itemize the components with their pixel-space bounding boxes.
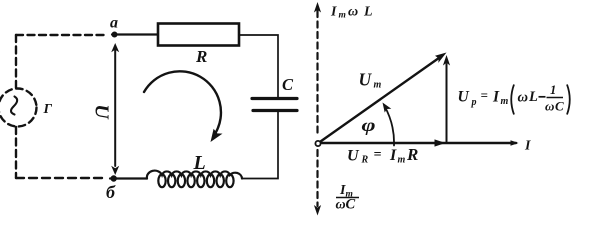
svg-text:I: I (492, 89, 500, 106)
svg-text:1: 1 (550, 83, 556, 97)
label UR = Im R (347, 145, 418, 166)
svg-text:R: R (361, 155, 369, 166)
svg-text:m: m (339, 11, 346, 21)
vector Um (321, 57, 442, 142)
svg-text:Г: Г (43, 102, 53, 117)
svg-text:а: а (110, 15, 118, 32)
svg-text:I: I (330, 5, 337, 20)
svg-text:I: I (524, 139, 531, 154)
wire dashed bottom-left from corner to node b (16, 177, 106, 179)
wire top from node a to resistor (112, 33, 158, 35)
label Im over omega C (bottom of phasor axis) (336, 183, 360, 213)
wire dashed left side upper (corner down to generator) (15, 35, 17, 88)
wire bottom from node b to inductor (110, 177, 147, 179)
generator G (dashed circle) (0, 89, 37, 127)
circular current direction arrow (144, 71, 221, 133)
node b junction dot (111, 175, 117, 181)
svg-text:φ: φ (362, 115, 376, 135)
vector Up vertical (446, 64, 448, 142)
svg-text:ω: ω (336, 198, 346, 213)
wire from resistor to top-right corner and down (239, 35, 278, 97)
inductor L coil loops (158, 174, 233, 187)
capacitor C (252, 99, 297, 111)
wire dashed left side lower (generator down to corner) (15, 127, 17, 178)
origin marker (315, 141, 320, 146)
phasor vertical dashed axis (316, 11, 318, 136)
svg-text:U: U (347, 148, 360, 165)
generator sine squiggle (11, 97, 17, 115)
node a junction dot (112, 32, 118, 38)
svg-text:m: m (374, 80, 382, 91)
svg-text:=: = (374, 148, 382, 163)
svg-text:U: U (359, 70, 373, 90)
svg-text:C: C (555, 99, 564, 114)
svg-text:m: m (398, 155, 406, 166)
inductor L coil humps (147, 171, 242, 179)
svg-text:р: р (471, 97, 477, 108)
svg-text:L: L (193, 152, 206, 174)
wire dashed top-left from corner to node a (16, 34, 108, 36)
svg-text:б: б (106, 182, 116, 202)
axis arrow up (314, 2, 321, 13)
svg-text:R: R (406, 145, 418, 164)
svg-text:L: L (363, 5, 373, 20)
label Um vector (359, 70, 382, 91)
svg-text:ω: ω (348, 5, 358, 20)
svg-text:m: m (501, 96, 509, 107)
svg-text:C: C (282, 75, 294, 94)
voltage U double arrow between a and b (114, 48, 116, 166)
svg-text:L: L (528, 89, 538, 105)
svg-text:U: U (91, 104, 113, 120)
svg-text:ω: ω (518, 90, 529, 106)
svg-text:ω: ω (545, 99, 554, 114)
svg-text:I: I (389, 147, 397, 164)
svg-text:C: C (346, 197, 356, 213)
svg-text:=: = (481, 88, 488, 103)
label Up = Im(wL - 1/wC) formula (458, 83, 570, 115)
svg-text:R: R (195, 47, 207, 66)
vector UR arrowhead on axis (435, 139, 446, 146)
label Im omega L (top of phasor axis) (330, 5, 373, 21)
svg-text:U: U (458, 89, 470, 106)
phasor horizontal axis I (322, 142, 516, 144)
angle phi arc (385, 106, 395, 146)
wire from capacitor down to bottom-right corner (242, 112, 278, 179)
axis arrow down (314, 205, 321, 216)
resistor R (158, 24, 239, 46)
